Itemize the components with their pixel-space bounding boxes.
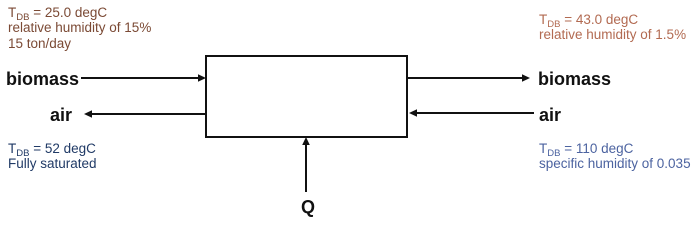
label Q (heat input)	[301, 198, 315, 216]
wire biomass out (right)	[407, 74, 530, 82]
wire air in (right)	[409, 109, 534, 117]
dryer box	[206, 56, 407, 137]
wire air out (left)	[84, 110, 206, 118]
label air (left)	[50, 106, 72, 124]
wire biomass in (left)	[81, 74, 206, 82]
label biomass (left)	[6, 70, 79, 88]
outlet note (dry biomass, terracotta)	[539, 12, 686, 43]
wire Q heat in (bottom)	[302, 137, 310, 192]
label air (right)	[539, 106, 561, 124]
inlet air note (slate blue)	[539, 141, 691, 172]
exhaust air note (navy)	[8, 141, 97, 172]
label biomass (right)	[538, 70, 611, 88]
inlet note (wet biomass, brown)	[8, 5, 151, 51]
